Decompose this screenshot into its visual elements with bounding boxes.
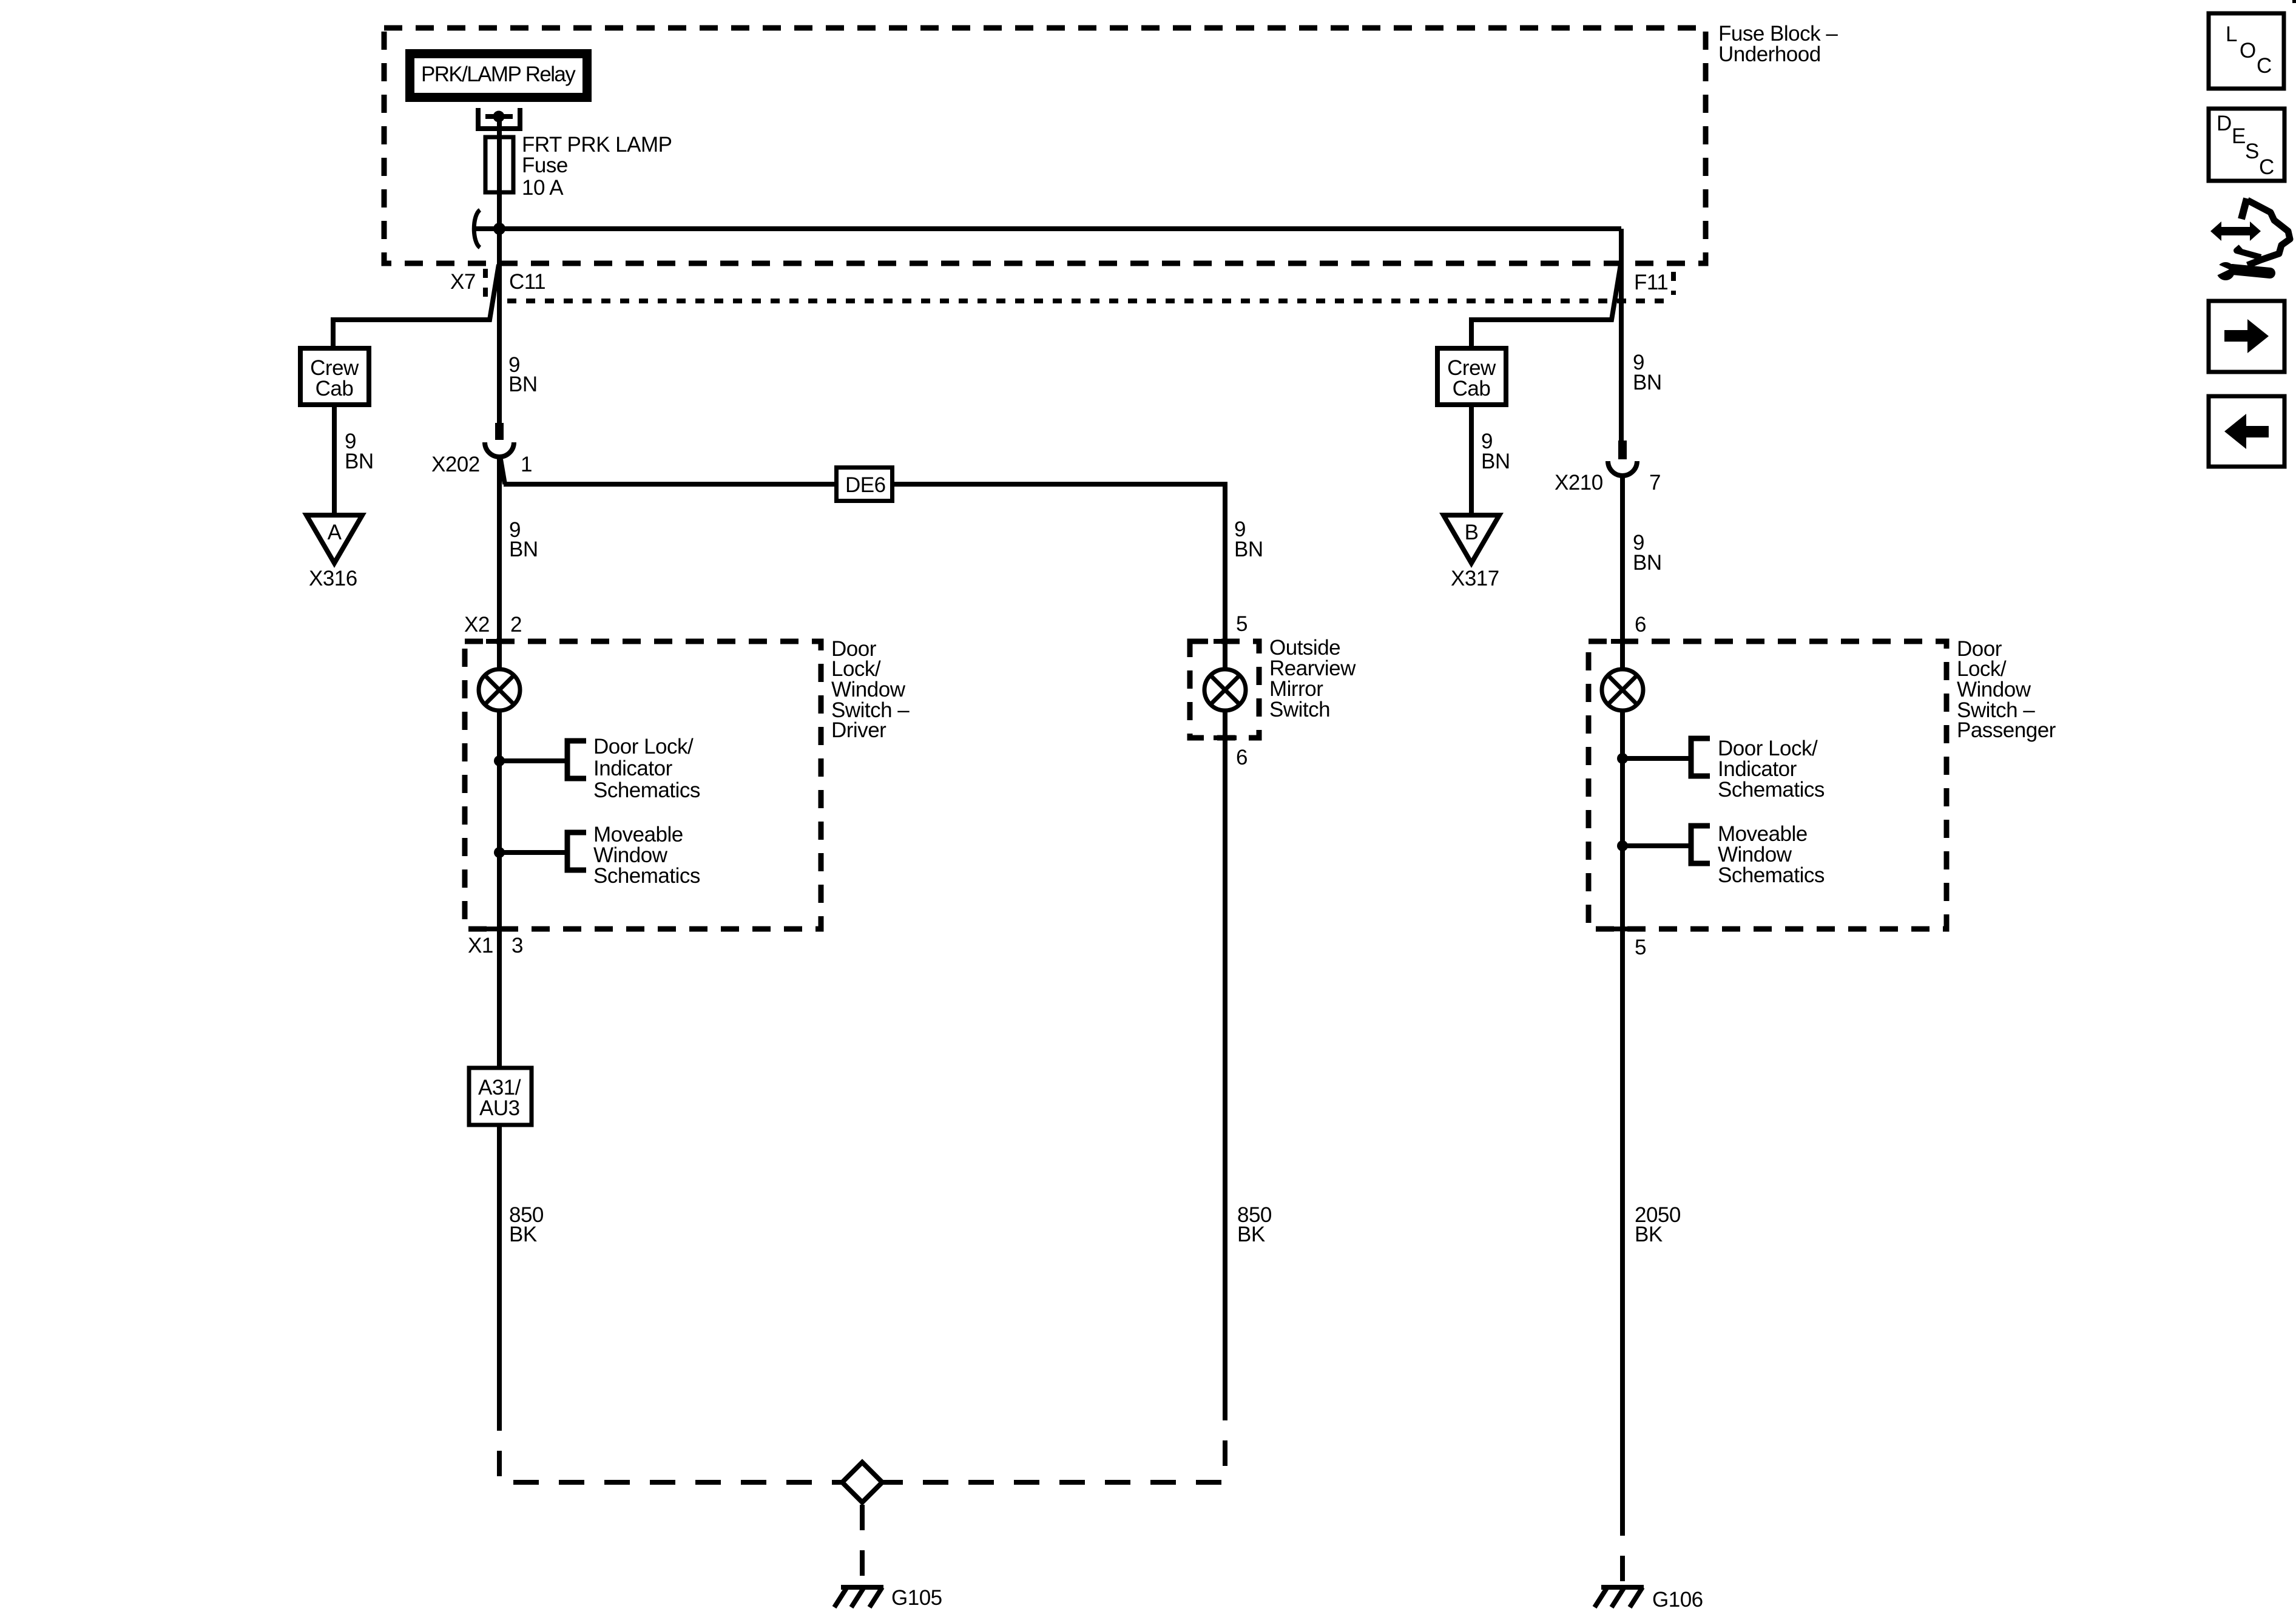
wire: left drop from bus to X202	[497, 229, 502, 425]
svg-text:X210: X210	[1555, 471, 1603, 495]
label: Moveable Window Schematics (passenger)	[1718, 822, 1825, 887]
icon box arrow right	[2209, 301, 2284, 372]
svg-text:Schematics: Schematics	[1718, 778, 1825, 802]
wire: bus across fuse block	[474, 226, 1621, 231]
page corner mark	[2292, 0, 2296, 3]
label: Outside Rearview Mirror Switch	[1269, 636, 1356, 721]
fuse FRT PRK LAMP 10 A	[485, 133, 672, 200]
svg-text:L: L	[2226, 22, 2237, 46]
wire label 9 BN (left, below X202)	[509, 518, 538, 561]
icon box DESC	[2209, 109, 2284, 181]
icon box LOC	[2209, 13, 2284, 89]
svg-text:Door Lock/: Door Lock/	[593, 735, 694, 758]
svg-text:PRK/LAMP Relay: PRK/LAMP Relay	[421, 62, 576, 86]
svg-text:2: 2	[510, 613, 522, 636]
svg-text:D: D	[2217, 112, 2232, 135]
wire: dashed drop to G106	[1620, 1510, 1625, 1585]
pin tick: passenger switch pin 5	[1611, 927, 1634, 931]
label: Door Lock/Indicator Schematics (driver)	[593, 735, 700, 802]
wire label 850 BK (left)	[509, 1203, 544, 1246]
svg-text:Schematics: Schematics	[593, 778, 700, 802]
svg-text:7: 7	[1649, 471, 1661, 495]
svg-text:Passenger: Passenger	[1957, 718, 2056, 742]
wire label 9 BN (Crew Cab left)	[345, 430, 374, 473]
svg-text:C11: C11	[509, 270, 545, 294]
svg-text:X1: X1	[468, 934, 493, 957]
relay contact symbol	[478, 108, 520, 129]
off-page bracket: door lock (driver)	[567, 741, 586, 778]
svg-text:S: S	[2245, 140, 2259, 163]
Crew Cab box (right)	[1437, 348, 1506, 405]
svg-text:6: 6	[1635, 613, 1646, 636]
svg-text:Fuse: Fuse	[522, 154, 568, 177]
svg-text:5: 5	[1635, 936, 1646, 959]
wire label 9 BN (right, above X210)	[1633, 351, 1662, 394]
svg-text:C: C	[2259, 155, 2274, 179]
wire label 850 BK (middle)	[1237, 1203, 1272, 1246]
harness tag DE6	[837, 468, 893, 501]
wire: branch to moveable window schematics (driver)	[499, 850, 565, 855]
svg-text:10 A: 10 A	[522, 176, 564, 200]
svg-text:BN: BN	[1633, 371, 1662, 394]
wire label 9 BN (DE6 drop)	[1234, 518, 1263, 561]
wire: branch to door lock schematics (passenger)	[1622, 756, 1689, 761]
svg-text:E: E	[2232, 124, 2246, 148]
connector X202	[431, 423, 532, 476]
wire: branch to moveable window schematics (passenger)	[1622, 843, 1689, 848]
svg-text:BN: BN	[1234, 538, 1263, 561]
lamp: driver switch backlight	[479, 669, 520, 711]
svg-text:Cab: Cab	[1453, 377, 1491, 400]
node: passenger branch 1	[1617, 753, 1628, 764]
driver switch enclosure (dashed)	[465, 641, 821, 929]
svg-text:C: C	[2257, 54, 2272, 78]
svg-text:BN: BN	[345, 450, 374, 473]
pin labels X1 / 3 (driver switch bottom)	[468, 934, 523, 957]
ground G105	[834, 1586, 942, 1610]
svg-text:A: A	[328, 521, 342, 544]
svg-text:Switch: Switch	[1269, 698, 1330, 721]
lamp: mirror switch backlight	[1204, 669, 1246, 711]
svg-text:BK: BK	[1237, 1223, 1265, 1246]
connector X210	[1555, 441, 1661, 495]
wire label 9 BN (left, above X202)	[508, 353, 538, 396]
wire: DE6 run right segment and drop to mirror switch	[894, 484, 1225, 669]
label: Moveable Window Schematics (driver)	[593, 823, 700, 888]
svg-text:O: O	[2240, 39, 2256, 62]
off-page triangle B	[1443, 515, 1499, 563]
icon box arrow left	[2209, 396, 2284, 467]
svg-text:X202: X202	[431, 453, 480, 476]
wire: A31 down (solid)	[497, 1125, 502, 1405]
wire: branch to door lock schematics (driver)	[499, 758, 565, 763]
svg-text:Underhood: Underhood	[1718, 42, 1821, 66]
wire: branch to right Crew Cab	[1471, 265, 1621, 350]
splice diamond	[842, 1462, 882, 1502]
lamp: passenger switch backlight	[1602, 669, 1643, 711]
pin tick: driver switch pin 3	[486, 927, 510, 931]
svg-text:1: 1	[521, 453, 532, 476]
svg-text:BN: BN	[1633, 551, 1662, 575]
pin tick: driver switch pin 2	[486, 639, 510, 644]
mirror switch enclosure (dashed)	[1190, 641, 1259, 738]
svg-text:X7: X7	[450, 270, 476, 294]
node: driver branch 1	[494, 755, 505, 766]
node: passenger branch 2	[1617, 840, 1628, 851]
svg-text:Cab: Cab	[316, 377, 354, 400]
svg-text:BK: BK	[1635, 1223, 1663, 1246]
wire: dashed drop to G105	[860, 1505, 865, 1585]
connector line X7/C11 (dotted)	[485, 269, 1673, 301]
svg-text:Schematics: Schematics	[1718, 863, 1825, 887]
wire: right drop from bus to X210	[1619, 229, 1624, 442]
svg-text:Schematics: Schematics	[593, 864, 700, 888]
label: Door Lock/Indicator Schematics (passenger)	[1718, 737, 1825, 802]
wire label 9 BN (right, below X210)	[1633, 531, 1662, 575]
passenger switch enclosure (dashed)	[1589, 641, 1947, 929]
fuse block underhood enclosure (dashed)	[384, 28, 1706, 263]
svg-text:G106: G106	[1652, 1588, 1703, 1612]
label: Door Lock/Window Switch - Driver	[831, 637, 910, 742]
wire label 2050 BK	[1635, 1203, 1681, 1246]
svg-text:BN: BN	[508, 373, 538, 396]
svg-text:AU3: AU3	[479, 1096, 520, 1120]
svg-text:B: B	[1465, 521, 1479, 544]
svg-text:X316: X316	[309, 567, 357, 590]
splice pack A31/AU3	[469, 1068, 532, 1125]
wire: X202 down through driver switch to A31	[497, 457, 502, 1068]
off-page bracket: moveable window (driver)	[567, 832, 586, 870]
off-page triangle A	[306, 515, 362, 563]
wire label 9 BN (Crew Cab right)	[1481, 430, 1510, 473]
ground G106	[1595, 1587, 1703, 1612]
relay PRK/LAMP Relay box	[405, 49, 592, 102]
svg-text:5: 5	[1236, 612, 1248, 636]
label: Door Lock/Window Switch - Passenger	[1957, 637, 2056, 742]
pin tick: mirror switch pin 5	[1214, 639, 1237, 644]
svg-text:BN: BN	[509, 538, 538, 561]
wire: relay to bus junction	[497, 119, 502, 229]
wire: DE6 run left segment	[504, 482, 835, 487]
wire: dashed ground run left to right	[499, 1405, 1225, 1482]
wire: branch to left Crew Cab	[333, 265, 499, 350]
icon: adjustable service (hand with double arrow and wrench)	[2210, 198, 2290, 280]
Crew Cab box (left)	[300, 348, 369, 405]
svg-text:G105: G105	[891, 1586, 942, 1610]
svg-text:Indicator: Indicator	[593, 757, 673, 780]
pin tick: passenger switch pin 6	[1611, 639, 1634, 644]
clip symbol at fuse output	[474, 210, 480, 248]
svg-text:3: 3	[512, 934, 523, 957]
svg-text:BN: BN	[1481, 450, 1510, 473]
node: driver branch 2	[494, 847, 505, 858]
wire: mirror switch down (solid)	[1223, 711, 1227, 1414]
wire: Crew Cab to triangle B	[1469, 405, 1474, 518]
svg-text:X317: X317	[1451, 567, 1499, 590]
wire: Crew Cab to triangle A	[332, 405, 337, 518]
svg-text:DE6: DE6	[845, 473, 886, 497]
svg-text:F11: F11	[1634, 271, 1668, 294]
off-page bracket: moveable window (passenger)	[1691, 826, 1710, 863]
svg-text:6: 6	[1236, 746, 1248, 769]
pin tick: mirror switch pin 6	[1214, 735, 1237, 740]
svg-text:Driver: Driver	[831, 718, 886, 742]
wire: X210 down to passenger switch	[1620, 476, 1625, 1510]
pin labels X2 / 2 (driver switch top)	[464, 613, 522, 636]
svg-text:X2: X2	[464, 613, 490, 636]
svg-text:BK: BK	[509, 1223, 537, 1246]
label: Fuse Block - Underhood	[1718, 22, 1838, 66]
junction node	[493, 223, 505, 235]
off-page bracket: door lock (passenger)	[1691, 738, 1710, 776]
wire: slant branch to DE6 run	[501, 459, 505, 484]
